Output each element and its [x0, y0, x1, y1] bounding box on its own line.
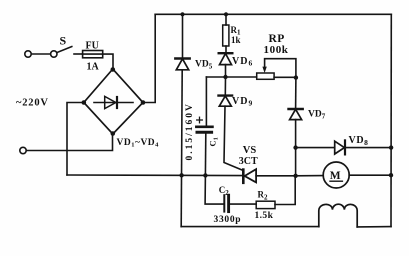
svg-text:0.15/160V: 0.15/160V: [185, 102, 195, 160]
svg-text:C1: C1: [208, 137, 220, 146]
svg-text:3300p: 3300p: [214, 215, 242, 225]
node: VD5 bottom rail junction: [179, 173, 183, 177]
terminal B (lower AC input): [20, 147, 26, 153]
label C1 plus sign: [197, 117, 203, 123]
svg-text:~220V: ~220V: [16, 98, 49, 109]
svg-text:VS: VS: [243, 145, 257, 156]
wire: diamond right corner up: [143, 14, 155, 102]
wire: top rail: [155, 13, 391, 15]
node: C1 bottom rail junction: [203, 173, 207, 177]
potentiometer RP: [257, 59, 296, 80]
wire: gate lead to VS: [224, 106, 243, 170]
svg-text:M: M: [330, 170, 341, 182]
wire: [26, 134, 112, 151]
wire: [74, 53, 83, 55]
svg-text:1.5k: 1.5k: [255, 211, 274, 221]
svg-text:3CT: 3CT: [239, 156, 258, 167]
bridge rectifier VD1-VD4 diamond: [84, 69, 143, 134]
switch S blade: [57, 47, 72, 53]
node: VD6/VD9/C1 junction: [223, 75, 227, 79]
resistor R2: [256, 176, 295, 209]
capacitor C1: [196, 77, 212, 175]
wire: diamond left corner to bottom rail: [67, 103, 84, 176]
diode VD5: [175, 14, 189, 226]
wire: [296, 175, 324, 177]
diode VD8: [335, 140, 391, 154]
wire: bottom rail: [67, 174, 243, 177]
thyristor VS: [243, 169, 256, 183]
svg-text:FU: FU: [86, 41, 99, 52]
wire: [103, 54, 113, 69]
svg-text:VD5: VD5: [195, 60, 213, 71]
node: VD8 right rail junction: [389, 145, 393, 149]
node: motor right rail junction: [389, 173, 393, 177]
svg-text:1k: 1k: [231, 35, 241, 45]
svg-text:VD7: VD7: [308, 110, 326, 121]
wire: [31, 53, 50, 55]
node: VD7/VD8 junction: [293, 145, 297, 149]
svg-text:VD6: VD6: [232, 56, 253, 68]
node: VS/VD7/M/R2 junction: [293, 174, 297, 178]
diode VD6: [219, 53, 233, 77]
inductor L (choke coil): [319, 204, 357, 227]
svg-text:VD1~VD4: VD1~VD4: [117, 138, 160, 149]
svg-text:VD9: VD9: [232, 96, 253, 108]
wire: [357, 226, 391, 228]
capacitor C2: [224, 195, 256, 211]
motor M: [323, 162, 349, 188]
terminal A (upper AC input): [25, 51, 31, 57]
bridge internal diode: [94, 96, 133, 108]
wire: [256, 175, 296, 177]
svg-text:100k: 100k: [264, 44, 289, 56]
node: diamond top: [111, 67, 116, 72]
diode VD9: [219, 77, 233, 106]
fuse FU: [83, 51, 103, 58]
diode VD7: [289, 78, 303, 176]
node: diamond right: [141, 100, 146, 105]
node: R1 top rail junction: [224, 12, 228, 16]
svg-text:S: S: [60, 34, 67, 48]
wire: [349, 174, 391, 176]
wire: [296, 147, 335, 149]
svg-text:VD8: VD8: [349, 135, 369, 147]
wire: lower rail: [181, 226, 319, 228]
switch S pole: [51, 51, 57, 57]
node: diamond bottom: [111, 131, 116, 136]
wire: snubber branch down: [205, 175, 223, 204]
svg-text:R2: R2: [258, 190, 269, 202]
node: RP right junction: [294, 75, 298, 79]
wire: VD6 anode node to RP left: [206, 76, 256, 78]
node: diamond left: [82, 100, 87, 105]
wire: right rail: [390, 14, 392, 226]
resistor R1: [223, 14, 229, 53]
svg-text:1A: 1A: [87, 62, 100, 73]
node: VD5 top rail junction: [180, 12, 184, 16]
